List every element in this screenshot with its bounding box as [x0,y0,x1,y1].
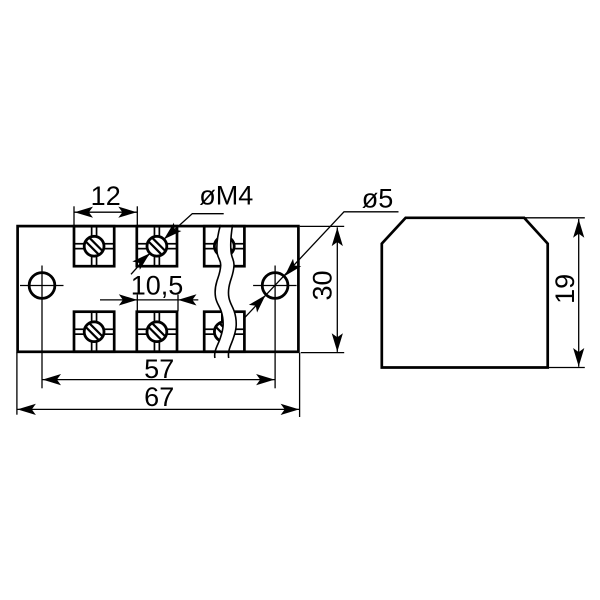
svg-text:ø5: ø5 [362,183,394,213]
svg-text:67: 67 [144,382,174,412]
svg-text:øM4: øM4 [199,181,253,211]
svg-text:30: 30 [308,270,338,300]
svg-text:57: 57 [144,354,174,384]
svg-text:12: 12 [91,181,121,211]
svg-text:19: 19 [550,274,580,304]
svg-text:10,5: 10,5 [131,271,184,301]
